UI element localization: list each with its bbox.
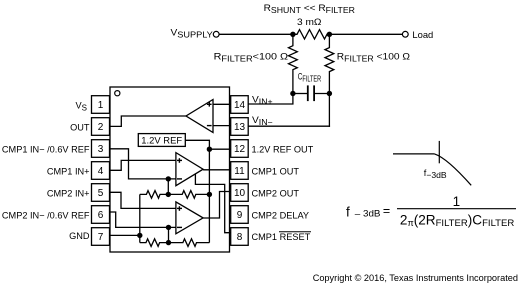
pin 13 box [231,118,249,136]
node shunt left [290,32,295,37]
svg-text:12: 12 [234,144,246,155]
svg-text:3: 3 [98,144,104,155]
svg-text:VSUPPLY: VSUPPLY [171,27,214,39]
svg-text:=: = [383,204,390,218]
pin 9 box [231,206,249,224]
svg-text:10: 10 [234,188,246,199]
node cmp2 - [166,225,171,230]
svg-text:f: f [346,204,350,219]
divider chain 2 with resistors [140,239,210,247]
wire pin6 to cmp2 - [110,212,176,227]
cmp1 + sign [177,159,182,161]
pin 6 box [92,206,110,224]
op-amp + sign [207,103,212,105]
node divider2 mid [166,240,171,245]
wire shunt to Load [329,33,402,35]
svg-text:13: 13 [234,122,246,133]
wire pin13 VIN- [248,125,329,127]
terminal Load [402,31,408,37]
resistor RFILTER right [325,34,334,126]
cmp2 + sign [177,207,182,209]
node cmp1 - [166,176,171,181]
svg-text:Copyright © 2016, Texas Instru: Copyright © 2016, Texas Instruments Inco… [313,273,518,283]
1.2V REF block [138,134,185,147]
svg-text:1: 1 [453,194,461,209]
pin 2 box [92,118,110,136]
svg-text:6: 6 [98,210,104,221]
svg-text:– 3dB: – 3dB [355,208,381,219]
resistor RFILTER left [289,34,298,93]
pin 1 box [92,96,110,114]
svg-text:11: 11 [234,166,245,177]
svg-text:f−3dB: f−3dB [424,168,447,180]
wire cmp1 - down to divider [167,179,169,195]
node divider1 mid [166,192,171,197]
node VIN+ [290,91,295,96]
comparator U1b triangle [176,153,203,186]
pin 14 box [231,96,249,114]
pin 5 box [92,184,110,202]
pin1 indicator circle [115,91,120,96]
svg-text:14: 14 [234,100,246,111]
left pin labels [2,101,90,242]
svg-text:8: 8 [237,232,243,243]
resistor RSHUNT 3mOhm [293,30,330,39]
svg-text:CMP1 OUT: CMP1 OUT [252,167,300,177]
node rail/pin12 [207,147,212,152]
right pin labels [252,145,314,243]
svg-text:1.2V REF OUT: 1.2V REF OUT [252,145,314,155]
wire cmp2 output to pin10 [203,192,231,219]
wire cmp1 output to pin11 [203,169,231,171]
pin numbers [98,100,246,243]
wire rail to pin12 [209,148,230,150]
wire REF out + rail [185,140,209,242]
op-amp - input wire (pin13) [213,125,231,127]
wire op-amp output to pin2 OUT [110,116,187,126]
svg-text:4: 4 [98,166,104,177]
capacitor CFILTER plates [307,86,309,100]
svg-text:CMP1 IN+: CMP1 IN+ [47,167,90,177]
op-amp - sign [207,125,212,127]
terminal VSUPPLY [213,31,219,37]
pin 8 box [231,228,249,246]
IC body U1 [110,87,230,252]
wire pin5 to cmp2 + [110,192,176,208]
pin boxes left [92,96,249,246]
svg-text:OUT: OUT [70,123,90,133]
wire pin4 to cmp1 + [110,160,176,170]
node GND junction [137,233,142,238]
svg-text:3 mΩ: 3 mΩ [297,17,322,28]
pin 11 box [231,162,249,180]
svg-text:CMP2 IN− /0.6V REF: CMP2 IN− /0.6V REF [2,211,90,221]
svg-text:1.2V REF: 1.2V REF [141,136,182,147]
wire cmp1 reset from triangle to pin8 [195,174,230,233]
node cap right [327,91,332,96]
svg-text:1: 1 [98,100,104,111]
op-amp U1a triangle [186,100,213,133]
comparator U1c triangle [176,202,203,234]
svg-text:GND: GND [69,231,90,241]
pin 3 box [92,140,110,158]
wire cap left [293,93,307,95]
svg-text:9: 9 [237,210,243,221]
wire pin7 GND [110,234,140,236]
svg-text:CMP2 OUT: CMP2 OUT [252,189,300,199]
svg-text:5: 5 [98,188,104,199]
svg-text:CMP2 DELAY: CMP2 DELAY [252,211,310,221]
node divider1 right on rail [207,192,212,197]
divider chain 1 with resistors [140,191,210,199]
wire pin14 to VIN+ node [248,94,293,105]
svg-text:CMP1 RESET: CMP1 RESET [252,232,311,242]
op-amp + input wire (pin14) [213,103,231,105]
svg-text:Load: Load [412,30,433,41]
svg-text:7: 7 [98,232,104,243]
cmp1 - sign [177,178,182,180]
svg-text:2: 2 [98,122,104,133]
wire pin3 to cmp1 - [110,149,176,179]
pin 12 box [231,140,249,158]
svg-text:CMP1 IN− /0.6V REF: CMP1 IN− /0.6V REF [2,145,90,155]
pin 10 box [231,184,249,202]
bode plot corner tick [438,141,440,163]
bode plot flat line [393,153,435,155]
wire VSUPPLY to shunt [219,33,293,35]
overline RESET [279,231,311,233]
svg-text:CMP2 IN+: CMP2 IN+ [47,189,90,199]
wire cap right [315,93,329,95]
wire cmp2 - down to divider2 [168,227,170,242]
wire divider left leg down to GND rail [139,194,141,242]
pin 7 box [92,228,110,246]
pin 4 box [92,162,110,180]
bode plot rolloff curve [435,154,472,185]
node shunt right [327,32,332,37]
cmp2 - sign [177,226,182,228]
